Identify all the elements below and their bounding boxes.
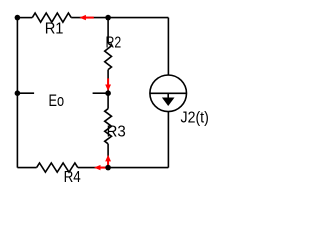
svg-text:R2: R2 (106, 35, 122, 52)
current arrow on top wire (pointing left) (79, 15, 93, 20)
svg-text:Eo: Eo (49, 91, 65, 110)
node A (top-left junction) (15, 15, 21, 21)
wire bottom segment R4 to node E and bottom-right corner (78, 167, 169, 169)
wire right vertical lower (current source to bottom-right corner) (167, 112, 169, 168)
current arrow on R3 branch (pointing up) (105, 155, 111, 167)
node B (top-middle junction) (105, 15, 111, 21)
svg-text:R1: R1 (45, 20, 64, 37)
node D (middle junction between R2 and R3) (105, 90, 111, 96)
wire node D down to R3 (107, 93, 109, 109)
wire bottom-left segment to R4 (17, 167, 36, 169)
current source J2 (150, 75, 187, 112)
node C (left middle, Eo terminal) (15, 90, 21, 96)
node E (bottom-middle junction) (105, 165, 111, 171)
terminal stub from node D toward Eo (93, 92, 109, 94)
current arrow on bottom wire (pointing left) (94, 165, 108, 170)
resistor R1 (32, 13, 71, 22)
wire R3 to node E (107, 144, 109, 168)
wire right vertical upper (top-right corner to current source) (167, 18, 169, 75)
wire top segment R1 to node B and to top-right corner (71, 17, 168, 19)
resistor R3 (105, 109, 112, 144)
svg-text:R4: R4 (64, 169, 81, 186)
current arrow on R2 branch (pointing down) (105, 78, 111, 91)
wire left vertical (node A to node C to bottom-left corner) (16, 18, 18, 168)
wire node B down to R2 (107, 18, 109, 44)
wire R2 to node D (107, 70, 109, 94)
resistor R4 (37, 163, 78, 172)
wire top-left segment (17, 17, 32, 19)
svg-text:J2(t): J2(t) (181, 110, 209, 127)
terminal stub from node C toward Eo (17, 92, 34, 94)
svg-text:R3: R3 (107, 123, 126, 140)
resistor R2 (105, 43, 112, 69)
